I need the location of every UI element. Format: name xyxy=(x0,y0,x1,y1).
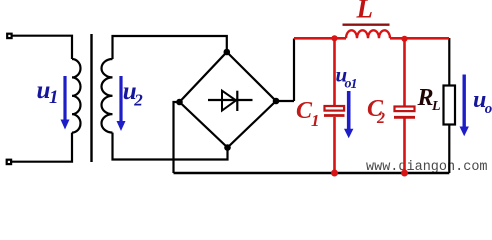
svg-text:1: 1 xyxy=(311,111,320,130)
svg-text:L: L xyxy=(356,0,374,24)
svg-text:o: o xyxy=(485,101,492,117)
svg-text:2: 2 xyxy=(133,91,143,110)
svg-text:R: R xyxy=(417,85,434,111)
svg-text:L: L xyxy=(431,99,441,114)
svg-text:1: 1 xyxy=(351,77,358,92)
svg-text:1: 1 xyxy=(49,87,59,108)
svg-text:2: 2 xyxy=(376,110,385,127)
